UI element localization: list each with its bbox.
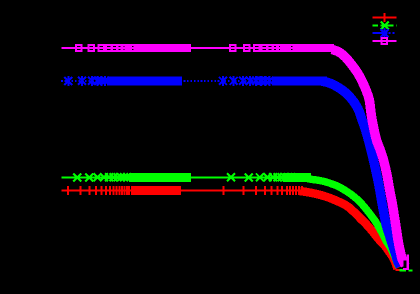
magenta curve markers decade 1 — [76, 45, 135, 51]
blue curve rolloff band — [322, 81, 400, 266]
magenta curve line — [61, 47, 340, 49]
red curve line — [61, 190, 305, 192]
green curve dense block 1 — [129, 173, 191, 182]
blue curve dotted line — [61, 80, 330, 82]
magenta curve dense block 1 — [134, 44, 191, 52]
green curve dense block 2 — [283, 173, 311, 182]
magenta final square marker right edge — [407, 255, 410, 270]
green curve line — [61, 176, 312, 178]
blue curve lead dash — [61, 80, 63, 82]
blue curve dense block 2 — [272, 76, 327, 85]
blue curve markers decade 2 — [219, 76, 274, 86]
red curve end dash — [396, 269, 400, 271]
magenta curve markers decade 2 — [230, 45, 293, 51]
green curve rolloff band — [305, 178, 399, 267]
legend magenta sample — [373, 40, 397, 42]
magenta curve dense block 2 — [293, 44, 334, 52]
green curve end dashes below border — [400, 269, 406, 271]
legend blue sample — [373, 32, 388, 34]
red curve rolloff band — [300, 191, 398, 268]
green curve markers — [73, 173, 295, 181]
legend — [373, 13, 397, 44]
legend red sample — [373, 17, 397, 19]
magenta final square marker bottom edge — [403, 268, 409, 270]
red curve dense block 1 — [131, 186, 181, 195]
magenta final square marker interior (black) — [403, 261, 406, 268]
magenta curve rolloff band — [332, 50, 405, 266]
blue curve markers decade 1 — [64, 76, 109, 86]
legend green sample — [373, 24, 397, 26]
blue curve dense block 1 — [107, 76, 182, 85]
red curve markers — [64, 186, 307, 195]
